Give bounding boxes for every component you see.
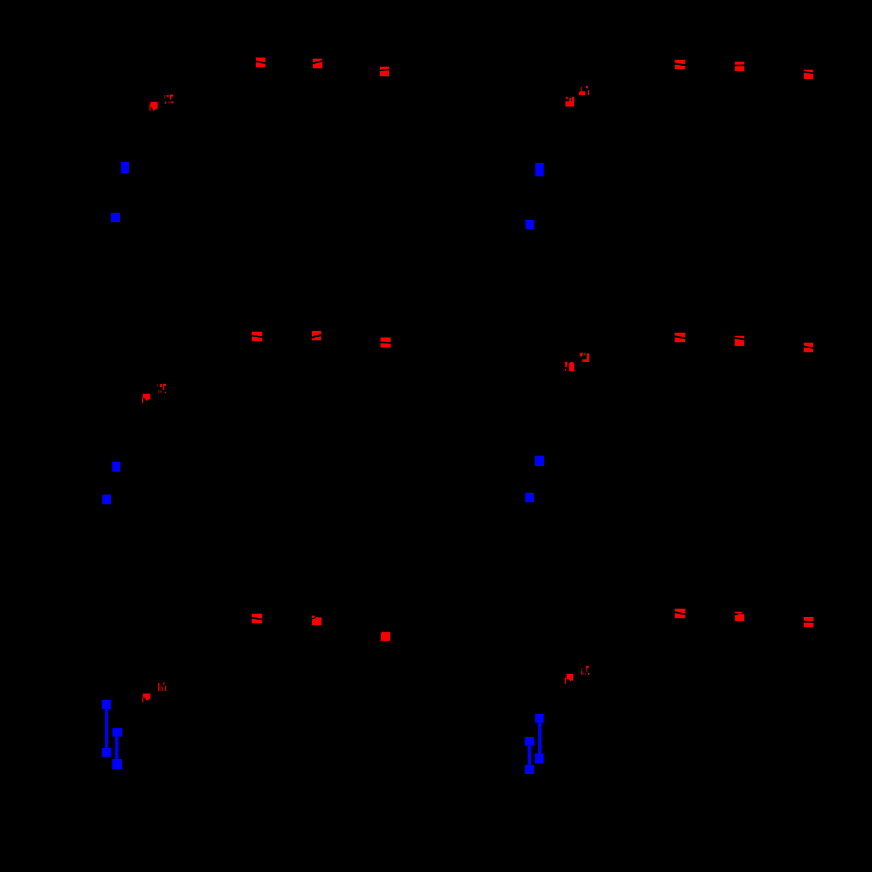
resistor R6: [803, 70, 813, 79]
jumper J3 trace: [538, 723, 541, 754]
resistor R16: [674, 609, 686, 619]
resistor R2: [312, 59, 322, 69]
jumper J2 trace: [115, 737, 118, 760]
capacitor C2 body: [565, 97, 574, 107]
via V3: [535, 163, 544, 176]
capacitor C5 value label: [158, 682, 166, 691]
jumper J3 pad B: [535, 754, 544, 764]
via V7: [535, 456, 544, 466]
jumper J4 trace: [528, 746, 531, 765]
jumper J4 pad A: [525, 737, 534, 746]
resistor R3: [379, 67, 389, 77]
capacitor C1 body: [149, 102, 157, 111]
resistor R11: [734, 336, 744, 346]
capacitor C3 value label: [157, 384, 166, 393]
via V5: [112, 462, 120, 472]
resistor R17: [735, 612, 744, 621]
jumper J2 pad A: [112, 728, 122, 737]
capacitor C2 value label: [579, 86, 589, 95]
resistor R4: [674, 60, 685, 69]
resistor R5: [735, 62, 746, 71]
jumper J2 pad B: [112, 759, 122, 769]
jumper J4 pad B: [525, 765, 534, 774]
resistor R15: [381, 632, 390, 641]
resistor R14: [312, 616, 322, 626]
via V4: [526, 220, 535, 229]
jumper J1 pad A: [102, 700, 111, 709]
resistor R12: [803, 343, 814, 353]
via V2: [111, 213, 120, 222]
resistor R7: [251, 332, 262, 342]
capacitor C1 value label: [164, 95, 174, 104]
via V1: [121, 162, 129, 173]
resistor R18: [803, 617, 814, 627]
jumper J3 pad A: [535, 714, 544, 723]
resistor R8: [311, 331, 321, 340]
capacitor C4 value label: [580, 353, 590, 362]
resistor R13: [251, 614, 262, 624]
capacitor C6 value label: [581, 666, 589, 675]
jumper J1 pad B: [102, 748, 111, 757]
via V6: [102, 495, 111, 505]
via V8: [525, 493, 534, 503]
jumper J1 trace: [105, 709, 108, 748]
resistor R10: [674, 333, 686, 343]
capacitor C5 body: [142, 694, 150, 703]
capacitor C6 body: [565, 674, 573, 684]
capacitor C3 body: [142, 394, 150, 403]
resistor R1: [255, 58, 266, 68]
capacitor C4 body: [565, 362, 574, 372]
resistor R9: [380, 338, 391, 348]
